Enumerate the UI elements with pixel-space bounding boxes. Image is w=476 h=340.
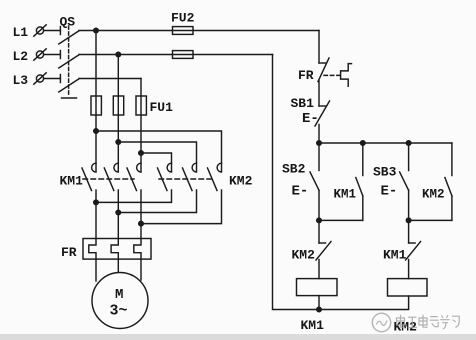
contactor KM1 main contact 1 [82,163,96,190]
svg-text:KM1: KM1 [334,188,357,202]
svg-text:FU2: FU2 [171,11,195,26]
node output W [139,221,144,226]
wire KM2 right output to W [141,190,222,224]
motor M circle [92,273,148,329]
bar SB3/KM2aux join [409,219,452,221]
wire phase3 to KM2 left [141,153,172,171]
terminal L1 [34,25,46,36]
svg-text:KM1: KM1 [301,318,325,333]
node bottom wire [317,307,322,312]
FR heater element 1 [89,239,96,260]
contact KM1 interlock (NC) [406,220,421,278]
svg-text:KM2: KM2 [292,248,316,263]
fuse FU1 phase1 [91,96,101,115]
KM1 link (dashed) [83,178,134,180]
svg-text:KM2: KM2 [422,188,445,202]
wire phase1 vertical [95,31,97,172]
switch QS pole 2 [59,51,79,69]
fuse FU1 phase3 [136,96,146,115]
FR thermal element symbol [341,64,352,87]
svg-text:QS: QS [60,15,76,30]
node phase3 branch to KM2 [139,151,144,156]
svg-text:SB3: SB3 [373,165,397,180]
svg-text:E-: E- [381,184,398,200]
wire L1 bus [79,30,319,32]
node phase2 branch to KM2 [116,140,121,145]
contactor KM2 main contact 3 [208,163,222,190]
wire L2 to QS [44,54,61,56]
button SB1 (stop, NC) [315,101,330,143]
svg-text:KM1: KM1 [60,174,84,189]
contact KM2 interlock (NC) [316,220,331,278]
wire L1 to QS [44,30,61,32]
wire KM1 output 1 down [95,190,97,239]
wire phase1 to KM2 right [96,131,222,171]
fuse FU1 phase2 [113,96,123,115]
button SB2 (start fwd, NO) [310,143,319,220]
coil KM2 [388,279,428,296]
contactor KM2 main contact 2 [183,163,197,190]
switch QS pole 1 [59,27,79,45]
svg-text:KM1: KM1 [383,248,407,263]
thermal relay FR box [83,239,151,260]
wire FR to motor W [140,259,142,280]
wire L1 down to control [318,31,320,64]
svg-text:FU1: FU1 [150,100,174,115]
node L1 drop [94,28,99,33]
svg-text:SB1: SB1 [291,96,315,111]
KM2 link (dashed) [159,178,214,180]
svg-text:FR: FR [61,245,77,260]
FR NC contact (control) [318,58,329,106]
svg-text:L1: L1 [13,25,29,40]
node phase1 branch to KM2 [94,129,99,134]
svg-text:M: M [115,287,123,303]
contactor KM1 main contact 3 [127,163,141,190]
wire KM1 output 2 down [117,190,119,239]
contactor KM1 main contact 2 [104,163,118,190]
wire phase2 to KM2 middle [118,142,196,171]
contact KM2 aux (seal-in) [445,143,452,220]
contactor KM2 main contact 1 [158,163,172,190]
svg-text:L2: L2 [13,49,29,64]
svg-text:E-: E- [302,111,319,127]
button SB3 (start rev, NO) [400,143,409,220]
wire KM2 middle output to V [118,190,196,213]
svg-text:SB2: SB2 [282,162,306,177]
QS mechanical link (dashed) [68,26,70,95]
svg-text:FR: FR [298,68,314,83]
wire phase3 vertical [140,79,142,172]
wire FR to motor U [95,259,97,281]
wire phase2 vertical [117,55,119,172]
contact KM1 aux (seal-in) [356,143,363,220]
wire L3 to QS [44,78,61,80]
wire L3 bus [79,78,141,80]
FR heater element 3 [134,239,141,260]
node output U [94,200,99,205]
watermark logo circle [372,313,390,331]
coil KM1 [297,279,338,296]
terminal L3 [34,73,46,84]
wire KM2 coil to bottom [408,296,410,310]
node output V [116,210,121,215]
wire FR to motor V [117,259,119,273]
left rail from L2 [273,55,408,310]
fuse FU2 lower [173,51,194,59]
QS handle bar [62,97,77,99]
fuse FU2 upper [173,27,194,35]
node L2 drop [116,52,121,57]
wire KM2 left output to U [96,190,172,202]
FR trip link (dashed) [324,74,340,76]
FR heater element 2 [111,239,118,260]
svg-text:E-: E- [292,184,309,200]
wire KM1 output 3 down [140,190,142,239]
switch QS pole 3 [59,75,79,93]
terminal L2 [34,49,46,60]
svg-text:KM2: KM2 [229,174,253,189]
wire KM1 coil to bottom [318,296,320,310]
svg-text:L3: L3 [13,73,29,88]
bar SB2/KM1aux join [319,219,363,221]
wire L2 bus [79,54,273,56]
watermark text 电工电气学习 [397,315,460,329]
svg-text:3~: 3~ [110,303,128,320]
node bar after SB1 [319,142,452,144]
